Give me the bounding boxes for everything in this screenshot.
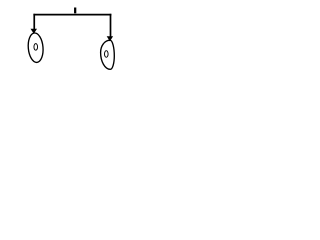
node I tick xyxy=(74,8,76,14)
source ellipse left xyxy=(27,32,44,63)
label 0 left xyxy=(34,44,38,51)
arrowhead right xyxy=(107,36,113,41)
wire top bus xyxy=(33,14,111,16)
wire left drop xyxy=(33,14,35,30)
source ellipse right xyxy=(101,40,115,69)
wire right drop xyxy=(110,14,112,37)
arrowhead left xyxy=(31,29,38,34)
label 0 right xyxy=(105,51,109,58)
